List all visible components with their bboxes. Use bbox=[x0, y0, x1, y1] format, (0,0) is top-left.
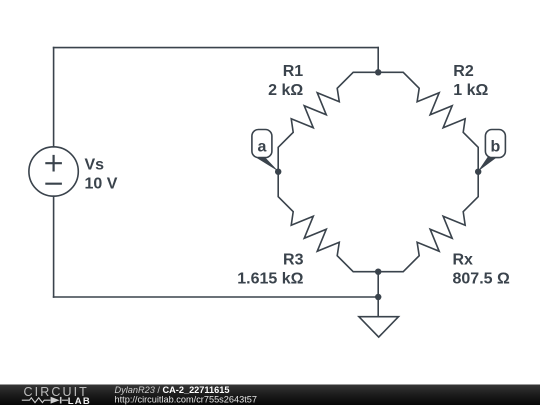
junction ground wire bbox=[375, 294, 381, 300]
resistor R1 bbox=[278, 72, 378, 171]
junction node b bbox=[475, 169, 481, 175]
junction node a bbox=[275, 169, 281, 175]
svg-text:Vs: Vs bbox=[85, 157, 105, 174]
wire bottom node to ground bbox=[377, 272, 379, 317]
svg-text:R2: R2 bbox=[453, 63, 474, 80]
resistor R2 bbox=[378, 72, 478, 171]
wire bottom horizontal bbox=[54, 296, 379, 298]
resistor Rx bbox=[378, 172, 478, 272]
ground bbox=[359, 317, 399, 337]
svg-text:a: a bbox=[257, 138, 266, 155]
resistor R3 bbox=[278, 172, 378, 272]
svg-text:http://circuitlab.com/cr755s26: http://circuitlab.com/cr755s2643t57 bbox=[115, 395, 257, 405]
svg-text:10 V: 10 V bbox=[85, 176, 118, 193]
voltage source VS circle bbox=[29, 147, 78, 196]
node a bubble bbox=[252, 130, 272, 158]
junction bottom node bbox=[375, 269, 381, 275]
svg-text:1 kΩ: 1 kΩ bbox=[453, 82, 488, 99]
footer bar bbox=[0, 385, 540, 405]
label R3 name and value bbox=[237, 252, 303, 288]
svg-text:Rx: Rx bbox=[453, 252, 474, 269]
node b bubble bbox=[485, 130, 505, 158]
CircuitLab logo wire-resistor-diode doodle bbox=[22, 398, 68, 403]
node a flag pointer bbox=[254, 157, 278, 172]
svg-text:LAB: LAB bbox=[68, 396, 91, 405]
node b flag pointer bbox=[478, 157, 498, 172]
svg-text:R3: R3 bbox=[283, 252, 304, 269]
label R2 name and value bbox=[453, 63, 488, 99]
svg-text:2 kΩ: 2 kΩ bbox=[268, 82, 303, 99]
voltage source VS plus sign bbox=[45, 155, 62, 172]
svg-text:807.5 Ω: 807.5 Ω bbox=[453, 271, 510, 288]
wire VS top vertical bbox=[53, 48, 55, 147]
wire VS bottom vertical bbox=[53, 196, 55, 297]
svg-text:R1: R1 bbox=[283, 63, 304, 80]
label Rx name and value bbox=[453, 252, 510, 288]
svg-text:DylanR23 / CA-2_22711615: DylanR23 / CA-2_22711615 bbox=[115, 385, 230, 395]
voltage source VS minus sign bbox=[45, 183, 62, 185]
label R1 name and value bbox=[268, 63, 303, 99]
label VS name and value bbox=[85, 157, 118, 193]
junction top node bbox=[375, 69, 381, 75]
svg-text:b: b bbox=[491, 138, 501, 155]
svg-text:1.615 kΩ: 1.615 kΩ bbox=[237, 271, 303, 288]
wire top node drop bbox=[377, 48, 379, 73]
wire top horizontal bbox=[54, 47, 379, 49]
